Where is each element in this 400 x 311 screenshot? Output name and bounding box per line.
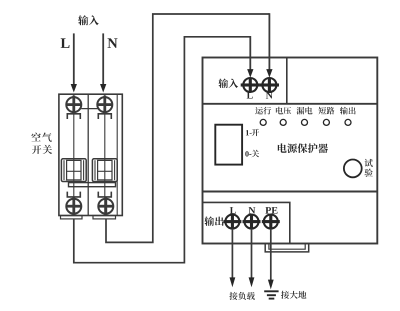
breaker foot pad left xyxy=(61,216,83,219)
wire PE output to earth xyxy=(268,229,274,290)
label 空气 (air) xyxy=(31,133,51,142)
indicator lamp 运行 xyxy=(260,119,266,125)
indicator label 电压 xyxy=(276,107,291,115)
wire N: breaker pole2 bottom to protector input N xyxy=(106,13,273,242)
surge protector U1 body xyxy=(203,58,378,244)
protector input terminal N xyxy=(260,78,279,92)
protector output terminal N xyxy=(243,215,261,230)
DIN rail clip xyxy=(265,244,309,252)
label 0-关 (0=off) xyxy=(245,150,259,158)
wire L: breaker pole1 bottom to protector input L xyxy=(74,36,254,263)
indicator lamp 输出 xyxy=(345,119,351,125)
label 输入 (protector input) xyxy=(218,79,238,89)
wire N output to load xyxy=(249,229,255,288)
label 开关 (switch) xyxy=(32,145,52,154)
indicator lamp 漏电 xyxy=(302,119,308,125)
breaker toggle handle pole 2 xyxy=(92,159,117,182)
label 输出 (protector output) xyxy=(204,216,223,226)
breaker foot pad right xyxy=(93,216,116,219)
circuit breaker CB (air switch) body xyxy=(59,94,122,215)
label 接大地 (to earth) xyxy=(281,291,306,299)
pin label L xyxy=(247,92,253,99)
breaker top clamp pole 2 xyxy=(98,114,111,119)
wire L output to load xyxy=(230,229,236,288)
label 电源保护器 (power protector) xyxy=(278,143,328,153)
indicator label 输出 xyxy=(340,107,356,115)
pin label L out xyxy=(230,207,236,214)
breaker handle tie bar xyxy=(69,183,116,187)
output terminal block xyxy=(203,202,290,243)
label 接负载 (to load) xyxy=(229,292,254,300)
earth ground symbol xyxy=(264,291,278,298)
indicator label 短路 xyxy=(319,107,335,115)
pin label N out xyxy=(249,207,256,214)
breaker bottom clamp pole 2 xyxy=(98,192,111,197)
breaker top terminal screw pole 2 xyxy=(97,96,112,114)
wire L input arrow into breaker xyxy=(71,33,77,92)
pin label L (line in) xyxy=(61,38,70,48)
indicator lamp 电压 xyxy=(280,119,286,125)
breaker bottom terminal screw pole 2 xyxy=(98,197,113,215)
protector input terminal L xyxy=(241,78,260,92)
breaker top clamp pole 1 xyxy=(67,114,80,119)
indicator lamp 短路 xyxy=(323,119,329,125)
breaker toggle handle pole 1 xyxy=(61,159,86,182)
label 试 (test-1) xyxy=(365,159,373,167)
protector output terminal PE xyxy=(262,215,280,230)
pin label N xyxy=(266,92,273,99)
label 验 (test-2) xyxy=(365,169,373,177)
wire N input arrow into breaker xyxy=(100,33,106,92)
breaker top terminal screw pole 1 xyxy=(66,96,81,114)
test button xyxy=(344,160,362,178)
label 1-开 (1=on) xyxy=(246,129,259,136)
indicator label 漏电 xyxy=(297,107,313,115)
switch window xyxy=(215,125,242,165)
protector output terminal L xyxy=(223,215,241,230)
breaker terminal link bar xyxy=(81,108,97,110)
pin label N (neutral in) xyxy=(108,38,118,48)
breaker bottom clamp pole 1 xyxy=(67,192,80,197)
indicator label 运行 xyxy=(255,107,271,115)
net label 输入 (mains input) xyxy=(78,15,99,25)
pin label PE out xyxy=(265,207,277,214)
breaker bottom terminal screw pole 1 xyxy=(66,197,81,215)
